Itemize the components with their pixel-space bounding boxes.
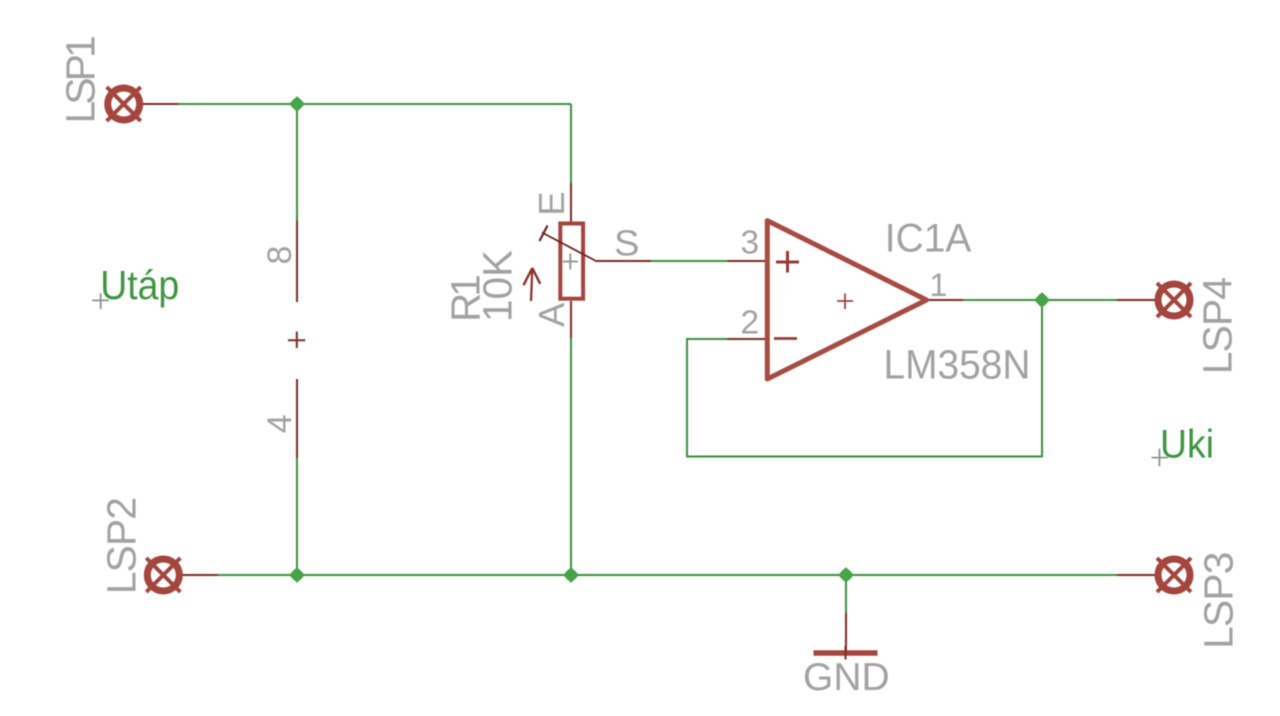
- svg-text:3: 3: [741, 224, 760, 261]
- svg-text:LM358N: LM358N: [884, 341, 1031, 387]
- svg-text:1: 1: [930, 267, 948, 303]
- svg-text:IC1A: IC1A: [885, 217, 972, 261]
- svg-text:10K: 10K: [475, 250, 521, 322]
- svg-text:LSP1: LSP1: [57, 37, 103, 123]
- svg-text:8: 8: [261, 246, 299, 265]
- svg-text:LSP4: LSP4: [1194, 278, 1240, 374]
- svg-text:S: S: [614, 223, 640, 264]
- svg-text:Utáp: Utáp: [100, 262, 179, 308]
- svg-text:4: 4: [261, 414, 299, 433]
- svg-text:GND: GND: [803, 656, 890, 699]
- svg-text:2: 2: [741, 304, 760, 341]
- svg-text:A: A: [531, 302, 572, 327]
- svg-text:Uki: Uki: [1160, 423, 1214, 467]
- svg-text:LSP3: LSP3: [1195, 553, 1241, 649]
- svg-text:E: E: [531, 191, 572, 215]
- svg-text:LSP2: LSP2: [99, 498, 145, 594]
